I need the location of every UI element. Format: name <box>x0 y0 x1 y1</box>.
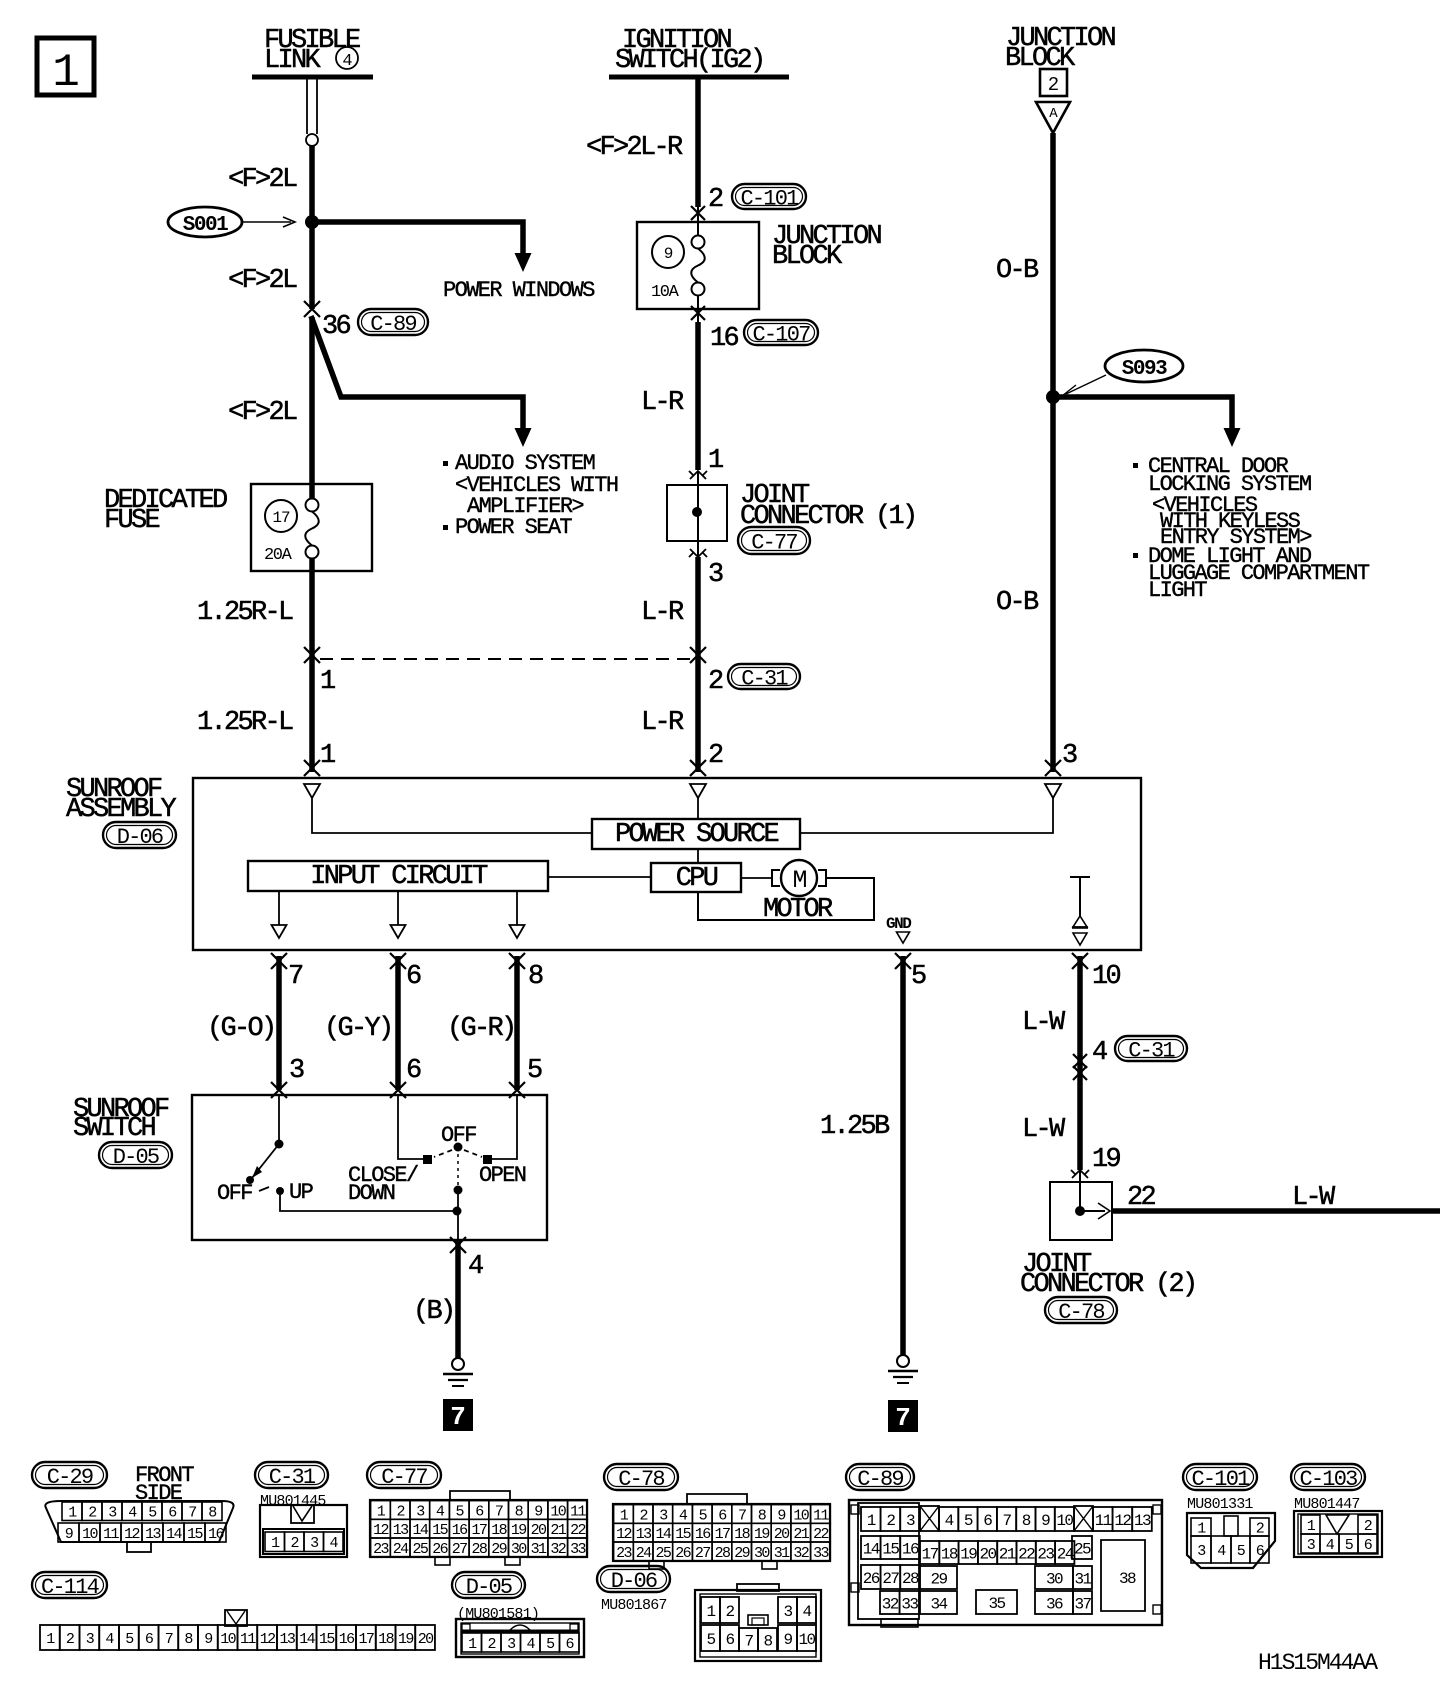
crossing into switch pin 6 <box>390 1082 406 1098</box>
svg-text:6: 6 <box>983 1512 992 1530</box>
svg-text:6: 6 <box>406 1056 421 1086</box>
svg-text:L-R: L-R <box>641 598 684 628</box>
svg-text:32: 32 <box>793 1545 808 1562</box>
svg-text:9: 9 <box>534 1503 542 1520</box>
svg-text:17: 17 <box>471 1522 486 1539</box>
svg-text:7: 7 <box>738 1507 746 1524</box>
connector label C-101 bottom <box>1183 1464 1257 1492</box>
connector label D-06 at assembly <box>103 822 176 850</box>
wire junction block to S093 <box>1050 133 1056 397</box>
fuse number 17 circle <box>265 500 297 532</box>
svg-text:D-06: D-06 <box>611 1569 657 1594</box>
fuse element 10A <box>691 236 705 296</box>
svg-text:10: 10 <box>82 1526 98 1543</box>
connector label D-05 at switch <box>99 1142 172 1170</box>
svg-text:16: 16 <box>902 1540 919 1558</box>
svg-text:24: 24 <box>393 1541 409 1558</box>
wire motor loop to cpu <box>698 878 874 920</box>
assembly pin 2 triangle <box>690 784 706 798</box>
wire 1.25B pin5 to ground <box>900 956 906 1355</box>
svg-text:8: 8 <box>1022 1512 1031 1530</box>
wire through C-89 down to dedicated fuse <box>309 317 315 499</box>
svg-text:1.25R-L: 1.25R-L <box>197 598 293 628</box>
svg-text:5: 5 <box>964 1512 973 1530</box>
label SUNROOF SWITCH <box>73 1095 169 1144</box>
svg-text:M: M <box>792 866 806 895</box>
svg-text:S093: S093 <box>1122 358 1167 381</box>
gnd pin triangle <box>897 932 910 943</box>
svg-text:2: 2 <box>886 1512 895 1530</box>
svg-text:11: 11 <box>570 1503 586 1520</box>
svg-text:10: 10 <box>220 1631 236 1648</box>
svg-text:C-101: C-101 <box>1191 1467 1250 1492</box>
svg-text:1: 1 <box>52 47 78 99</box>
svg-text:8: 8 <box>763 1632 772 1650</box>
svg-text:2: 2 <box>396 1503 404 1520</box>
svg-text:31: 31 <box>531 1541 547 1558</box>
svg-text:4: 4 <box>945 1512 954 1530</box>
svg-text:20: 20 <box>774 1526 790 1543</box>
wire fusible link to node S001 <box>309 146 315 222</box>
svg-text:13: 13 <box>145 1526 161 1543</box>
crossing into switch pin 3 <box>271 1082 287 1098</box>
svg-text:6: 6 <box>725 1631 734 1649</box>
assembly pin 3 triangle <box>1045 784 1061 798</box>
svg-text:4: 4 <box>468 1252 483 1282</box>
svg-text:C-31: C-31 <box>269 1465 316 1490</box>
output 2 triangle <box>391 925 406 938</box>
crossing into switch pin 5 <box>509 1082 525 1098</box>
svg-text:20: 20 <box>418 1631 434 1648</box>
svg-text:15: 15 <box>319 1631 335 1648</box>
svg-text:POWER WINDOWS: POWER WINDOWS <box>443 278 595 303</box>
svg-text:11: 11 <box>1095 1512 1112 1530</box>
svg-text:OPEN: OPEN <box>479 1163 526 1188</box>
svg-text:24: 24 <box>636 1545 652 1562</box>
svg-text:(MU801581): (MU801581) <box>457 1606 539 1623</box>
svg-text:BLOCK: BLOCK <box>772 242 843 272</box>
wire ignition switch to C-101 <box>695 77 701 207</box>
fusible link element symbol <box>306 79 318 146</box>
junction block triangle A <box>1036 102 1070 133</box>
connector D-06 pinout <box>695 1584 821 1661</box>
svg-text:14: 14 <box>166 1526 182 1543</box>
svg-text:(G-Y): (G-Y) <box>324 1014 392 1044</box>
label JOINT CONNECTOR (1) <box>740 481 916 532</box>
wire G-O pin7 to switch pin3 <box>276 956 282 1090</box>
svg-text:O-B: O-B <box>996 256 1039 286</box>
dashed connector line C-31 <box>320 658 693 660</box>
svg-text:LINK: LINK <box>264 46 322 76</box>
svg-text:1: 1 <box>320 667 335 697</box>
node S093 junction dot <box>1046 390 1060 404</box>
fusible link label <box>264 26 360 76</box>
connector label C-77 bottom <box>367 1462 441 1490</box>
svg-text:7: 7 <box>1002 1512 1011 1530</box>
svg-text:27: 27 <box>882 1570 899 1588</box>
wire pin3 to power source <box>800 798 1053 833</box>
svg-text:C-89: C-89 <box>857 1467 903 1492</box>
svg-text:2: 2 <box>708 667 723 697</box>
svg-text:C-89: C-89 <box>370 312 416 337</box>
svg-text:33: 33 <box>901 1595 918 1613</box>
svg-text:1.25B: 1.25B <box>820 1112 890 1142</box>
svg-text:2: 2 <box>725 1603 734 1621</box>
label central door locking list <box>1133 454 1370 603</box>
ground reference box 7 left <box>443 1399 473 1432</box>
svg-text:19: 19 <box>1092 1145 1121 1175</box>
crossing below switch pin 4 <box>450 1237 466 1253</box>
wire branch to power windows <box>312 222 523 253</box>
connector label D-06 bottom <box>597 1566 670 1594</box>
svg-text:3: 3 <box>708 560 723 590</box>
up/off switch pole dot <box>275 1140 284 1149</box>
svg-text:OFF: OFF <box>217 1181 252 1206</box>
off contact dash <box>259 1187 269 1191</box>
svg-text:<F>2L: <F>2L <box>228 165 297 195</box>
assembly pin 8 crossing <box>509 953 525 969</box>
svg-text:10: 10 <box>550 1503 566 1520</box>
svg-text:2: 2 <box>1364 1518 1372 1535</box>
svg-text:11: 11 <box>240 1631 256 1648</box>
fuse element 20A <box>305 499 319 559</box>
svg-text:7: 7 <box>165 1631 173 1648</box>
output 1 triangle <box>272 925 287 938</box>
connector label C-78 bottom <box>604 1464 678 1492</box>
svg-text:12: 12 <box>616 1526 631 1543</box>
svg-text:S001: S001 <box>183 214 228 237</box>
svg-text:13: 13 <box>636 1526 652 1543</box>
svg-text:36: 36 <box>322 312 351 342</box>
power source box <box>592 819 800 850</box>
wire up contact to common <box>280 1191 457 1211</box>
svg-text:DOWN: DOWN <box>348 1181 395 1206</box>
svg-text:10A: 10A <box>651 283 680 302</box>
wire junction block to joint connector 1 <box>695 322 701 470</box>
connector crossing mark right C-31 <box>690 647 706 663</box>
svg-text:(G-O): (G-O) <box>207 1014 275 1044</box>
svg-text:36: 36 <box>1046 1595 1063 1613</box>
svg-text:5: 5 <box>527 1056 542 1086</box>
connector label C-31 right <box>1115 1036 1187 1063</box>
connector C-29 pinout <box>45 1501 233 1552</box>
svg-text:C-103: C-103 <box>1299 1467 1357 1492</box>
svg-text:38: 38 <box>1119 1570 1136 1588</box>
svg-text:MU801331: MU801331 <box>1187 1496 1253 1513</box>
svg-text:12: 12 <box>373 1522 388 1539</box>
svg-text:9: 9 <box>204 1631 212 1648</box>
svg-text:2: 2 <box>66 1631 74 1648</box>
svg-text:FUSE: FUSE <box>104 506 160 536</box>
assembly pin 6 crossing <box>390 953 406 969</box>
svg-text:L-W: L-W <box>1022 1115 1066 1145</box>
connector label C-77 mid <box>738 527 810 555</box>
svg-text:15: 15 <box>187 1526 203 1543</box>
up/off switch arm <box>246 1144 279 1184</box>
center switch arm right <box>464 1150 482 1157</box>
connector crossing mark 36 C-89 <box>304 301 320 317</box>
input circuit box <box>248 861 548 892</box>
wire L-W to right edge <box>1112 1208 1440 1214</box>
svg-text:25: 25 <box>1074 1540 1091 1558</box>
svg-text:34: 34 <box>930 1595 947 1613</box>
label SUNROOF ASSEMBLY <box>66 775 177 825</box>
wire L-W pin10 to C-31 <box>1077 956 1083 1170</box>
svg-text:1: 1 <box>867 1512 876 1530</box>
svg-text:9: 9 <box>1041 1512 1050 1530</box>
svg-text:UP: UP <box>289 1180 314 1205</box>
wire B switch to ground <box>455 1240 461 1358</box>
svg-text:(G-R): (G-R) <box>447 1014 515 1044</box>
connector C-78 pinout <box>613 1494 830 1569</box>
svg-text:22: 22 <box>1018 1545 1035 1563</box>
svg-text:16: 16 <box>208 1526 224 1543</box>
svg-text:32: 32 <box>550 1541 565 1558</box>
ignition switch label <box>615 26 764 76</box>
svg-text:18: 18 <box>491 1522 507 1539</box>
svg-text:POWER SOURCE: POWER SOURCE <box>615 820 779 850</box>
switch wire pin5 to open contact <box>492 1095 517 1159</box>
svg-text:33: 33 <box>813 1545 829 1562</box>
connector crossing mark left C-31 <box>304 647 320 663</box>
label audio system list <box>443 451 618 540</box>
svg-text:C-77: C-77 <box>751 530 797 555</box>
switch wire pin3 to pole <box>278 1095 280 1141</box>
svg-text:MOTOR: MOTOR <box>763 895 833 925</box>
svg-text:30: 30 <box>754 1545 770 1562</box>
assembly pin 1 triangle <box>304 784 320 798</box>
svg-text:<F>2L: <F>2L <box>228 398 297 428</box>
svg-text:7: 7 <box>288 962 303 992</box>
cpu box <box>651 863 741 894</box>
svg-text:D-05: D-05 <box>466 1575 512 1600</box>
svg-text:14: 14 <box>655 1526 671 1543</box>
connector C-103 pinout <box>1294 1511 1382 1557</box>
assembly pin 7 crossing <box>271 953 287 969</box>
page number box 1 <box>37 38 94 99</box>
svg-text:16: 16 <box>695 1526 711 1543</box>
center switch arm left <box>434 1150 452 1157</box>
svg-text:L-W: L-W <box>1292 1183 1336 1213</box>
wire pin1 to power source <box>312 798 592 833</box>
wire input circuit output 2 <box>397 891 399 925</box>
svg-text:(B): (B) <box>413 1297 454 1327</box>
svg-text:4: 4 <box>1092 1038 1107 1068</box>
junction block page box 2 <box>1040 69 1067 96</box>
center switch pole dot <box>454 1143 463 1152</box>
svg-text:INPUT CIRCUIT: INPUT CIRCUIT <box>310 862 488 892</box>
svg-text:9: 9 <box>777 1507 785 1524</box>
arrow to central door locking <box>1224 428 1241 447</box>
svg-text:10: 10 <box>1092 962 1121 992</box>
svg-text:3: 3 <box>906 1512 915 1530</box>
svg-text:10: 10 <box>1056 1512 1073 1530</box>
svg-text:22: 22 <box>570 1522 585 1539</box>
label DEDICATED FUSE <box>104 486 227 536</box>
label CLOSE/DOWN <box>348 1163 418 1206</box>
svg-text:4: 4 <box>802 1603 811 1621</box>
crossing into joint connector 2 <box>1071 1170 1089 1178</box>
svg-text:11: 11 <box>103 1526 119 1543</box>
svg-text:<F>2L-R: <F>2L-R <box>586 133 683 163</box>
wire pin2 to power source <box>697 798 699 819</box>
svg-text:17: 17 <box>715 1526 730 1543</box>
wire G-R pin8 to switch pin5 <box>514 956 520 1090</box>
svg-text:13: 13 <box>279 1631 295 1648</box>
svg-text:3: 3 <box>783 1603 792 1621</box>
label FRONT SIDE <box>135 1463 194 1506</box>
splice S001 callout <box>168 207 295 237</box>
sunroof assembly box <box>193 778 1141 950</box>
connector label D-05 bottom <box>452 1572 525 1600</box>
svg-text:C-29: C-29 <box>47 1465 93 1490</box>
svg-text:H1S15M44AA: H1S15M44AA <box>1258 1650 1378 1676</box>
svg-text:O-B: O-B <box>996 588 1039 618</box>
svg-text:21: 21 <box>550 1522 566 1539</box>
ground symbol left <box>443 1358 473 1386</box>
svg-text:4: 4 <box>342 52 352 71</box>
svg-text:10: 10 <box>798 1631 815 1649</box>
svg-text:10: 10 <box>793 1507 809 1524</box>
crossing into joint connector 1 <box>689 471 707 479</box>
svg-text:25: 25 <box>655 1545 671 1562</box>
svg-text:12: 12 <box>260 1631 275 1648</box>
svg-text:7: 7 <box>744 1632 753 1650</box>
dedicated fuse box <box>251 484 372 571</box>
junction dot common <box>453 1207 462 1216</box>
svg-text:C-77: C-77 <box>381 1465 427 1490</box>
svg-text:D-06: D-06 <box>117 825 163 850</box>
svg-text:SWITCH: SWITCH <box>73 1114 156 1144</box>
center pole wire with dots <box>454 1147 463 1240</box>
svg-text:C-101: C-101 <box>740 186 799 211</box>
arrow to audio system <box>515 428 532 447</box>
svg-text:17: 17 <box>922 1545 939 1563</box>
svg-text:31: 31 <box>1074 1570 1091 1588</box>
fuse number 9 circle <box>652 236 684 268</box>
svg-text:16: 16 <box>710 324 739 354</box>
svg-text:32: 32 <box>882 1595 899 1613</box>
svg-text:15: 15 <box>432 1522 448 1539</box>
close/down contact dot <box>423 1155 432 1164</box>
svg-text:33: 33 <box>570 1541 586 1558</box>
svg-text:37: 37 <box>1074 1595 1091 1613</box>
svg-text:29: 29 <box>930 1570 947 1588</box>
connector label C-89 bottom <box>846 1464 914 1492</box>
assembly pin 5 crossing <box>895 953 911 969</box>
svg-text:7: 7 <box>188 1505 196 1522</box>
svg-text:16: 16 <box>452 1522 468 1539</box>
svg-text:31: 31 <box>774 1545 790 1562</box>
connector C-31 pinout <box>260 1505 347 1557</box>
svg-text:14: 14 <box>299 1631 315 1648</box>
double crossing mark C-31 <box>1073 1054 1087 1080</box>
svg-text:28: 28 <box>715 1545 731 1562</box>
junction block fuse box <box>637 222 759 309</box>
svg-text:11: 11 <box>813 1507 829 1524</box>
svg-text:8: 8 <box>528 962 543 992</box>
wire power source to cpu <box>697 849 699 863</box>
svg-text:C-114: C-114 <box>41 1575 100 1600</box>
svg-text:7: 7 <box>450 1402 466 1432</box>
sunroof switch box <box>192 1095 547 1240</box>
up contact dot <box>276 1187 284 1195</box>
svg-text:2: 2 <box>88 1505 96 1522</box>
wire branch diagonal to audio system <box>311 316 523 428</box>
svg-text:CONNECTOR (2): CONNECTOR (2) <box>1020 1270 1196 1300</box>
svg-text:9: 9 <box>65 1526 73 1543</box>
svg-text:30: 30 <box>1046 1570 1063 1588</box>
svg-text:27: 27 <box>695 1545 710 1562</box>
svg-text:C-31: C-31 <box>1128 1038 1175 1063</box>
svg-text:25: 25 <box>412 1541 428 1558</box>
svg-text:C-107: C-107 <box>752 322 810 347</box>
svg-text:16: 16 <box>339 1631 355 1648</box>
svg-text:17: 17 <box>358 1631 373 1648</box>
fusible link bus bar <box>252 75 373 80</box>
connector D-05 pinout <box>456 1619 584 1657</box>
wire cpu to motor <box>741 877 772 879</box>
connector label C-31 mid <box>728 664 800 691</box>
svg-text:CPU: CPU <box>676 864 718 894</box>
svg-text:22: 22 <box>813 1526 828 1543</box>
svg-text:3: 3 <box>1062 741 1077 771</box>
svg-text:C-78: C-78 <box>618 1467 664 1492</box>
svg-text:19: 19 <box>511 1522 526 1539</box>
svg-text:5: 5 <box>706 1631 715 1649</box>
joint connector 1 box <box>667 471 727 556</box>
wire fuse to C-31 crossing <box>309 558 315 772</box>
crossing into sunroof assembly pin 3 <box>1045 760 1061 776</box>
crossing into sunroof assembly pin 1 <box>304 760 320 776</box>
connector crossing mark C-107 <box>691 296 705 322</box>
svg-text:14: 14 <box>863 1540 880 1558</box>
switch wire pin6 to close/down contact <box>398 1095 423 1159</box>
svg-text:17: 17 <box>272 509 290 527</box>
svg-text:29: 29 <box>734 1545 749 1562</box>
svg-text:GND: GND <box>886 915 911 933</box>
svg-text:20: 20 <box>979 1545 996 1563</box>
svg-text:26: 26 <box>675 1545 691 1562</box>
svg-text:18: 18 <box>734 1526 750 1543</box>
wire S001 to connector C-89 <box>309 222 315 309</box>
svg-text:MU801867: MU801867 <box>601 1597 667 1614</box>
svg-text:2: 2 <box>1048 74 1059 96</box>
svg-text:15: 15 <box>675 1526 691 1543</box>
label JUNCTION BLOCK middle <box>772 222 882 272</box>
svg-text:15: 15 <box>882 1540 899 1558</box>
connector label C-29 <box>32 1462 107 1490</box>
svg-text:6: 6 <box>406 962 421 992</box>
svg-text:28: 28 <box>471 1541 487 1558</box>
wire joint connector 1 to sunroof assembly <box>695 557 701 772</box>
connector crossing mark C-101 <box>691 206 705 236</box>
svg-text:18: 18 <box>941 1545 958 1563</box>
connector C-114 pinout <box>40 1610 435 1650</box>
svg-text:20A: 20A <box>264 546 293 565</box>
svg-text:19: 19 <box>960 1545 977 1563</box>
junction block right label <box>1005 24 1116 74</box>
svg-text:1.25R-L: 1.25R-L <box>197 708 293 738</box>
svg-text:2: 2 <box>708 185 723 215</box>
svg-text:29: 29 <box>491 1541 506 1558</box>
connector C-101 pinout <box>1187 1513 1275 1568</box>
svg-text:SWITCH(IG2): SWITCH(IG2) <box>615 46 764 76</box>
svg-text:19: 19 <box>398 1631 413 1648</box>
svg-text:28: 28 <box>902 1570 919 1588</box>
svg-text:35: 35 <box>988 1595 1005 1613</box>
pin 10 internal connector symbol <box>1070 877 1090 945</box>
